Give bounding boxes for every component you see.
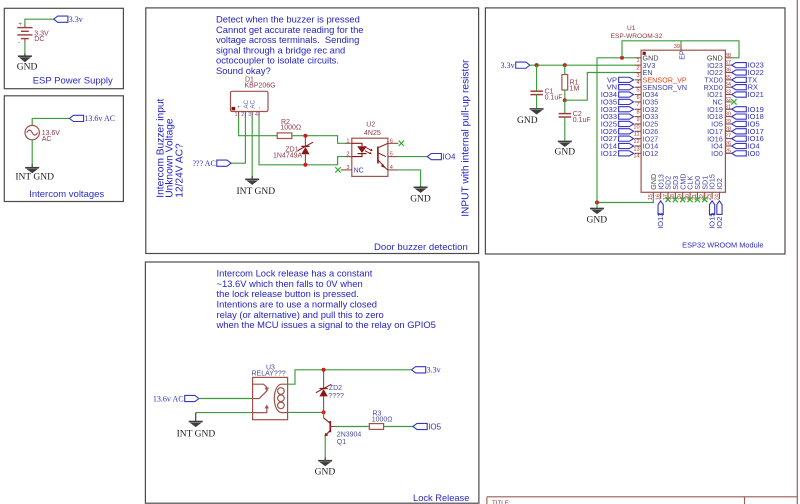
supply flag 13.6v AC bbox=[185, 395, 199, 401]
svg-text:Lock Release: Lock Release bbox=[413, 493, 469, 503]
net flag VP (pin 4) bbox=[619, 77, 634, 82]
svg-text:NC: NC bbox=[354, 168, 364, 175]
svg-text:1M: 1M bbox=[570, 85, 580, 92]
sheet title block bbox=[487, 497, 797, 504]
wire 3.3v to battery bbox=[25, 19, 54, 24]
supply flag 3.3v bbox=[516, 62, 530, 68]
svg-text:3: 3 bbox=[636, 73, 639, 79]
net flag IO4 (pin 26) bbox=[732, 143, 747, 148]
resistor R1 1M bbox=[562, 75, 580, 93]
svg-text:4N25: 4N25 bbox=[364, 130, 381, 137]
pin stubs bbox=[238, 112, 240, 118]
ground INT GND bbox=[15, 164, 54, 183]
wire C1 to GND bbox=[536, 95, 538, 109]
svg-text:7: 7 bbox=[636, 102, 639, 108]
wire to R1 bbox=[564, 65, 566, 74]
net flag RX (pin 34) bbox=[732, 85, 747, 90]
module frame: ESP32 WROOM Module bbox=[485, 8, 785, 254]
svg-text:3.3v: 3.3v bbox=[427, 366, 441, 375]
svg-text:33: 33 bbox=[725, 90, 731, 96]
no-connect X pin 32 NC bbox=[731, 99, 736, 104]
svg-text:GND: GND bbox=[555, 147, 576, 157]
svg-text:Door buzzer detection: Door buzzer detection bbox=[374, 242, 468, 253]
wire GND net: pin1 left loop bbox=[597, 58, 635, 203]
wire node B to U2 pin2 bbox=[305, 157, 346, 165]
junction node EN bbox=[563, 98, 567, 102]
note vertical: Intercom Buzzer input / Unknown Voltage / 12/24V AC? bbox=[155, 98, 185, 197]
svg-text:39: 39 bbox=[674, 44, 680, 50]
svg-text:38: 38 bbox=[725, 53, 731, 59]
ground INT GND bbox=[177, 413, 216, 440]
junction node C bbox=[322, 410, 326, 414]
module frame: Lock Release bbox=[145, 262, 479, 503]
svg-text:29: 29 bbox=[725, 119, 731, 125]
net flag IO2 (pin 24, bottom) bbox=[717, 201, 722, 215]
no-connect X pin3 bbox=[335, 167, 340, 172]
wire R2 to node A bbox=[292, 135, 306, 137]
svg-text:ESP-WROOM-32: ESP-WROOM-32 bbox=[611, 33, 663, 40]
svg-text:??? AC: ??? AC bbox=[192, 159, 215, 168]
ground GND bbox=[17, 54, 38, 73]
net flag IO35 (pin 7) bbox=[619, 99, 634, 104]
note text block bbox=[216, 268, 436, 331]
svg-text:3.3v: 3.3v bbox=[501, 61, 515, 70]
net flag IO18 (pin 30) bbox=[732, 114, 747, 119]
svg-text:Intercom voltages: Intercom voltages bbox=[29, 189, 104, 200]
svg-text:14: 14 bbox=[633, 154, 639, 160]
svg-text:EP: EP bbox=[678, 50, 686, 60]
svg-text:1: 1 bbox=[636, 58, 639, 64]
supply flag 3.3v bbox=[54, 16, 68, 22]
net flag IO14 (pin 13) bbox=[619, 143, 634, 148]
svg-text:D1: D1 bbox=[245, 77, 254, 84]
svg-text:2: 2 bbox=[346, 152, 349, 158]
sheet frame right border bbox=[796, 0, 798, 504]
svg-text:INPUT with internal pull-up re: INPUT with internal pull-up resistor bbox=[461, 59, 472, 217]
wire source to INT GND bbox=[31, 140, 33, 165]
svg-text:????: ???? bbox=[328, 393, 344, 400]
battery BT1 3.3V DC bbox=[17, 21, 49, 46]
svg-text:3: 3 bbox=[248, 112, 251, 118]
svg-text:12: 12 bbox=[633, 139, 639, 145]
ground GND bbox=[315, 458, 336, 478]
no-connect X pin 22 bbox=[702, 197, 707, 202]
wire relay NC contact to INT GND bbox=[196, 412, 253, 414]
svg-text:26: 26 bbox=[725, 141, 731, 147]
wire C2 to GND bbox=[564, 117, 566, 141]
svg-text:4: 4 bbox=[390, 165, 393, 171]
net flag IO32 (pin 8) bbox=[619, 107, 634, 112]
transistor Q1 2N3904 bbox=[324, 412, 362, 446]
no-connect X pin6 bbox=[399, 141, 404, 146]
wire U2 pin4 to GND bbox=[398, 170, 421, 187]
wire node EN to U1 EN pin bbox=[565, 73, 635, 101]
ground GND bottom-left of U1 bbox=[587, 209, 608, 226]
svg-text:INT GND: INT GND bbox=[237, 187, 276, 197]
no-connect X pin 20 bbox=[687, 197, 692, 202]
svg-text:6: 6 bbox=[390, 138, 393, 144]
wire 3.3v to U1 3V3 pin bbox=[530, 64, 635, 66]
net flag IO27 (pin 12) bbox=[619, 136, 634, 141]
svg-text:34: 34 bbox=[725, 82, 731, 88]
svg-text:RELAY???: RELAY??? bbox=[252, 370, 286, 377]
svg-text:3: 3 bbox=[346, 165, 349, 171]
wire relay coil to 3.3v bbox=[288, 370, 412, 384]
svg-text:IO4: IO4 bbox=[443, 153, 456, 162]
ground GND under C1 bbox=[517, 109, 544, 126]
pin stubs left bbox=[346, 142, 352, 144]
LED inside U2 bbox=[352, 143, 362, 146]
wire to GND symbol bbox=[596, 203, 598, 209]
svg-text:AC: AC bbox=[42, 136, 52, 143]
svg-text:4: 4 bbox=[255, 112, 258, 118]
svg-text:9: 9 bbox=[636, 117, 639, 123]
svg-text:GND: GND bbox=[315, 468, 336, 478]
junction pin1/EP riser bbox=[620, 56, 624, 60]
optocoupler U2 4N25 bbox=[335, 122, 404, 177]
module frame: Door buzzer detection bbox=[146, 8, 479, 254]
junction node A bbox=[303, 134, 307, 138]
svg-text:IO0: IO0 bbox=[748, 149, 760, 158]
no-connect X pin 21 bbox=[695, 197, 700, 202]
switch blade bbox=[259, 390, 267, 398]
LED emission arrows bbox=[366, 148, 372, 151]
svg-text:13: 13 bbox=[633, 146, 639, 152]
net flag IO34 (pin 6) bbox=[619, 92, 634, 97]
svg-text:27: 27 bbox=[725, 134, 731, 140]
svg-text:GND: GND bbox=[17, 62, 38, 72]
net flag IO12 (pin 14) bbox=[619, 151, 634, 156]
svg-text:5: 5 bbox=[390, 152, 393, 158]
ground GND under C2 bbox=[555, 141, 576, 157]
U1 pin 39 EP bbox=[680, 45, 682, 50]
svg-text:1000Ω: 1000Ω bbox=[280, 125, 301, 132]
svg-text:when the MCU issues a signal t: when the MCU issues a signal to the rela… bbox=[216, 319, 436, 330]
svg-text:11: 11 bbox=[634, 132, 640, 138]
svg-text:32: 32 bbox=[725, 97, 731, 103]
net flag IO17 (pin 28) bbox=[732, 129, 747, 134]
svg-text:37: 37 bbox=[725, 60, 731, 66]
resistor R3 1000ohm bbox=[369, 411, 392, 430]
wire Q1 emitter to GND bbox=[324, 436, 326, 459]
svg-text:8: 8 bbox=[636, 110, 639, 116]
wire 13.6v AC to relay common bbox=[199, 398, 253, 400]
net flag IO26 (pin 11) bbox=[619, 129, 634, 134]
net flag IO4 bbox=[427, 154, 441, 160]
net flag IO5 (pin 29) bbox=[732, 121, 747, 126]
wire D1 pin4 to node B bbox=[259, 117, 305, 165]
svg-text:1000Ω: 1000Ω bbox=[372, 416, 393, 423]
svg-text:30: 30 bbox=[725, 112, 731, 118]
supply flag 3.3v bbox=[412, 367, 426, 373]
net flag IO22 (pin 36) bbox=[732, 70, 747, 75]
svg-text:24: 24 bbox=[714, 194, 720, 200]
svg-text:U2: U2 bbox=[366, 122, 375, 129]
svg-text:0.1uF: 0.1uF bbox=[545, 95, 563, 102]
no-connect X pin 19 bbox=[680, 197, 685, 202]
svg-text:KBP206G: KBP206G bbox=[245, 83, 276, 90]
top contact with down arrow bbox=[253, 384, 267, 387]
net flag IO15 (pin 23, bottom) bbox=[710, 201, 715, 215]
wire EP stub riser bbox=[680, 41, 682, 46]
zener diode ZD1 1N4749A bbox=[273, 136, 313, 165]
svg-text:GND: GND bbox=[410, 194, 431, 204]
svg-text:13.6v AC: 13.6v AC bbox=[153, 395, 184, 404]
supply flag 13.6v AC bbox=[69, 115, 83, 121]
svg-text:3.3v: 3.3v bbox=[69, 15, 83, 24]
svg-text:1N4749A: 1N4749A bbox=[273, 152, 303, 159]
junction R1 branch bbox=[563, 63, 567, 67]
net flag IO16 (pin 27) bbox=[732, 136, 747, 141]
svg-text:5: 5 bbox=[636, 88, 639, 94]
svg-text:AC: AC bbox=[250, 99, 257, 108]
svg-text:ZD2: ZD2 bbox=[329, 385, 342, 392]
svg-text:IO21: IO21 bbox=[748, 90, 764, 99]
wire relay coil bottom to node C bbox=[288, 411, 324, 413]
wire battery to GND bbox=[24, 43, 26, 56]
no-connect X pin 18 bbox=[673, 197, 678, 202]
wire GND top loop to pin38 bbox=[622, 41, 739, 58]
resistor R2 1000ohm bbox=[277, 119, 301, 139]
junction node B bbox=[303, 163, 307, 167]
svg-text:Q1: Q1 bbox=[337, 439, 346, 446]
net flag IO33 (pin 9) bbox=[619, 114, 634, 119]
wire D1 pin3 to INT GND bbox=[251, 117, 253, 177]
svg-text:16: 16 bbox=[655, 194, 661, 200]
net flag VN (pin 5) bbox=[619, 85, 634, 90]
svg-text:15: 15 bbox=[648, 194, 654, 200]
relay U3 RELAY??? bbox=[252, 365, 288, 420]
svg-text:10: 10 bbox=[633, 124, 639, 130]
svg-text:ESP32 WROOM Module: ESP32 WROOM Module bbox=[682, 241, 763, 250]
svg-text:IO12: IO12 bbox=[643, 150, 659, 158]
svg-text:TITLE:: TITLE: bbox=[492, 500, 511, 504]
wire Q1 base to R3 bbox=[336, 426, 370, 428]
wire R3 to IO5 flag bbox=[384, 426, 413, 428]
phototransistor inside U2 bbox=[378, 143, 388, 148]
capacitor C1 0.1uF bbox=[530, 89, 562, 102]
svg-text:IO5: IO5 bbox=[428, 423, 441, 432]
svg-text:1: 1 bbox=[346, 138, 349, 144]
wire R1 to node EN bbox=[564, 90, 566, 100]
svg-text:IO0: IO0 bbox=[711, 150, 723, 158]
svg-text:-: - bbox=[18, 39, 20, 46]
svg-text:23: 23 bbox=[707, 194, 713, 200]
svg-text:Sound okay?: Sound okay? bbox=[216, 65, 271, 76]
zener diode ZD2 ???? bbox=[316, 370, 344, 413]
svg-text:4: 4 bbox=[636, 80, 639, 86]
svg-text:25: 25 bbox=[725, 148, 731, 154]
ground GND bbox=[410, 186, 431, 204]
wire U2 pin5 to IO4 flag bbox=[398, 156, 428, 158]
wire GND bottom to pin15 bbox=[597, 199, 653, 203]
net flag IO25 (pin 10) bbox=[619, 121, 634, 126]
svg-text:INT GND: INT GND bbox=[177, 429, 216, 439]
svg-text:U1: U1 bbox=[627, 25, 636, 32]
junction C1 branch bbox=[535, 63, 539, 67]
svg-text:31: 31 bbox=[725, 104, 731, 110]
svg-text:IO13: IO13 bbox=[656, 213, 665, 229]
svg-text:2: 2 bbox=[636, 65, 639, 71]
capacitor C2 0.1uF bbox=[559, 111, 591, 124]
svg-text:35: 35 bbox=[725, 75, 731, 81]
svg-text:2N3904: 2N3904 bbox=[337, 432, 362, 439]
bottom contact with up arrow bbox=[253, 408, 267, 413]
svg-text:0.1uF: 0.1uF bbox=[573, 117, 591, 124]
svg-text:ESP Power Supply: ESP Power Supply bbox=[33, 76, 113, 87]
module frame: ESP Power Supply bbox=[4, 8, 123, 88]
junction ZD2 top bbox=[322, 368, 326, 372]
svg-text:28: 28 bbox=[725, 126, 731, 132]
net flag IO23 (pin 37) bbox=[732, 63, 747, 68]
svg-text:IO12: IO12 bbox=[601, 149, 617, 158]
wire to C1 bbox=[536, 65, 538, 91]
note text block bbox=[216, 14, 364, 77]
bridge rectifier D1 KBP206G bbox=[231, 77, 276, 119]
svg-text:36: 36 bbox=[725, 68, 731, 74]
op-amp U1 ESP-WROOM-32 module body bbox=[611, 25, 726, 193]
junction GND bottom bbox=[595, 201, 599, 205]
svg-text:2: 2 bbox=[241, 112, 244, 118]
svg-text:GND: GND bbox=[517, 116, 538, 126]
module frame: Intercom voltages bbox=[4, 96, 123, 202]
AC source 13.6V AC bbox=[25, 125, 60, 142]
svg-text:DC: DC bbox=[34, 36, 44, 43]
ground INT GND bbox=[237, 176, 276, 197]
net flag TX (pin 35) bbox=[732, 77, 747, 82]
svg-text:1: 1 bbox=[234, 112, 237, 118]
svg-text:IO2: IO2 bbox=[715, 217, 724, 229]
no-connect X pin 17 bbox=[665, 197, 670, 202]
wire D1 pin2 to ??? AC flag bbox=[231, 117, 245, 163]
net flag IO13 (pin 16, bottom) bbox=[658, 201, 663, 215]
wire D1 pin1 to R2 bbox=[239, 117, 278, 136]
svg-text:+: + bbox=[18, 21, 22, 28]
net flag IO21 (pin 33) bbox=[732, 92, 747, 97]
net flag IO5 bbox=[413, 423, 427, 429]
svg-text:IO2: IO2 bbox=[716, 178, 724, 190]
net flag IO0 (pin 25) bbox=[732, 151, 747, 156]
svg-text:GND: GND bbox=[587, 216, 608, 226]
coil bbox=[274, 384, 287, 412]
svg-text:-: - bbox=[257, 107, 264, 109]
svg-text:13.6v AC: 13.6v AC bbox=[84, 114, 115, 123]
svg-text:12/24V AC?: 12/24V AC? bbox=[174, 143, 185, 198]
net flag IO19 (pin 31) bbox=[732, 107, 747, 112]
wire node A to U2 pin1 bbox=[305, 136, 346, 144]
net flag ??? AC bbox=[217, 160, 231, 166]
wire 13.6v AC flag to source bbox=[32, 118, 69, 125]
wire node EN to C2 bbox=[564, 100, 566, 113]
svg-text:6: 6 bbox=[636, 95, 639, 101]
svg-text:INT GND: INT GND bbox=[15, 173, 54, 183]
pin stubs right bbox=[388, 142, 398, 144]
